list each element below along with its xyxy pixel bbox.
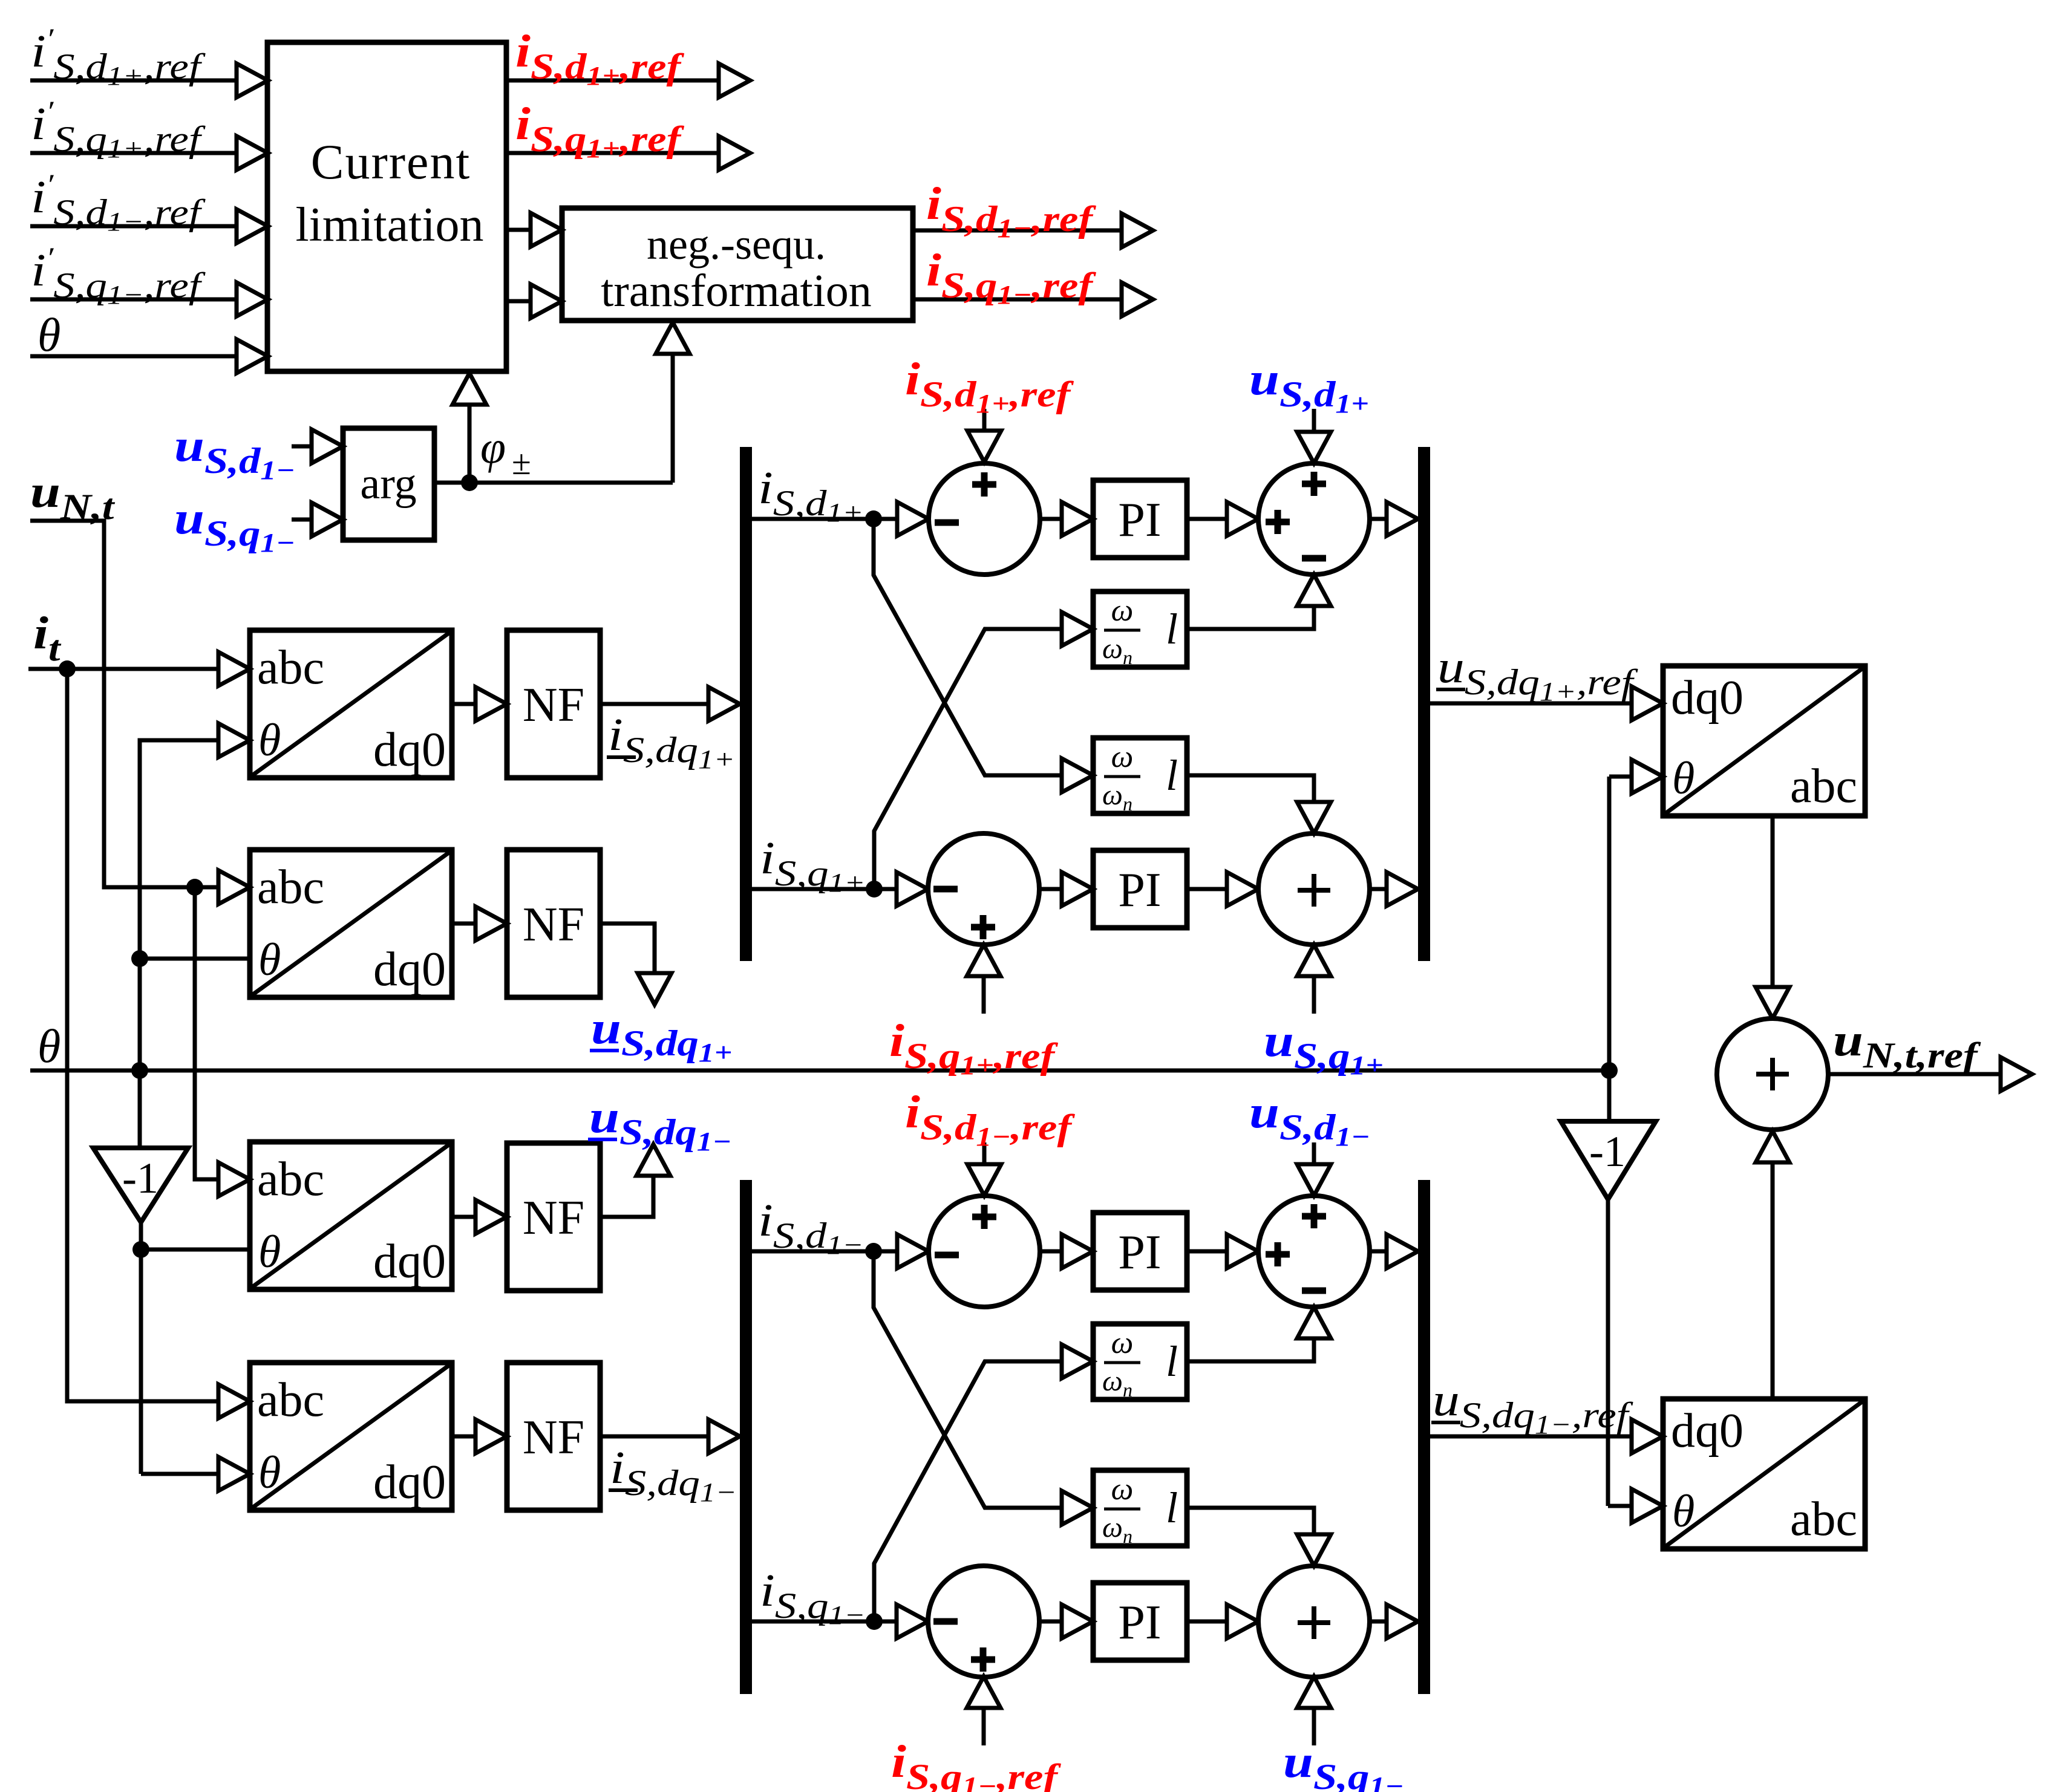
wire -1A to block3 theta (141, 1248, 250, 1252)
svg-text:neg.-sequ.: neg.-sequ. (647, 220, 826, 269)
svg-text:l: l (1166, 1484, 1178, 1532)
node phi+- junction (461, 474, 478, 491)
node -1A to block3 junction (132, 1241, 149, 1258)
wire wL upper to SB2 bottom (1187, 1339, 1314, 1361)
svg-text:-1: -1 (122, 1154, 158, 1202)
bus bar 3 (740, 1180, 752, 1694)
wire PI to SB2 (1187, 1250, 1227, 1254)
node theta to block2 junction (131, 950, 148, 967)
svg-text:NF: NF (523, 898, 584, 951)
wire u_N,t (30, 521, 218, 887)
node u_N,t branch junction (186, 879, 203, 896)
svg-text:θ: θ (1672, 753, 1694, 804)
wire output i_S,d1-,ref (red) (913, 229, 1122, 233)
svg-text:NF: NF (523, 679, 584, 732)
svg-text:dq0: dq0 (1671, 1404, 1743, 1458)
summer SA4 (q output) (1258, 833, 1370, 945)
block U2 neg.-sequ. transformation (562, 208, 913, 321)
wire i_S,q1-,ref into SB3 (967, 1676, 1001, 1708)
block T5 dq0->abc (1663, 666, 1865, 816)
bus bar 1 (740, 447, 752, 961)
block wL A lower (1093, 738, 1187, 813)
wire SA1 to PI (1040, 517, 1062, 521)
wire u_S,q1+ into SA4 (1297, 945, 1331, 976)
wire wL lower to SA4 top (1187, 775, 1314, 802)
wire output u_N,t,ref (1828, 1072, 2001, 1077)
wire bus to sum Bd (752, 1250, 897, 1254)
block PI Bd (1093, 1213, 1187, 1290)
svg-text:abc: abc (1790, 760, 1857, 813)
summer SA1 (d error) (929, 463, 1040, 575)
block NF2 NF (507, 850, 600, 997)
svg-text:NF: NF (523, 1191, 584, 1245)
block wL B lower (1093, 1470, 1187, 1546)
block wL B upper (1093, 1324, 1187, 1399)
block NF3 NF (507, 1143, 600, 1291)
block T1 abc->dq0 (250, 630, 452, 778)
wire Bd cross to lower wL (874, 1251, 1062, 1508)
svg-text:l: l (1166, 751, 1178, 800)
block NF4 NF (507, 1363, 600, 1510)
svg-text:l: l (1166, 1337, 1178, 1386)
wire NF4 to bus3 i_S,dq1- (600, 1435, 708, 1439)
block U1 Current limitation (267, 42, 506, 371)
svg-text:ω: ω (1111, 1472, 1134, 1507)
wire input i'_S,d1+,ref (30, 79, 237, 83)
svg-text:ω: ω (1111, 593, 1134, 628)
wire u_N,t branch to block3 (195, 887, 218, 1179)
svg-text:PI: PI (1118, 864, 1161, 917)
wire input i'_S,q1&#8722;,ref (30, 298, 237, 302)
wire u_S,q1- into SB4 (1297, 1676, 1331, 1708)
svg-text:Current: Current (311, 134, 471, 189)
wire u_S,q1- to arg (292, 518, 312, 522)
node Ad junction (865, 510, 882, 527)
node Aq junction (866, 881, 883, 898)
svg-text:l: l (1166, 605, 1178, 653)
svg-text:dq0: dq0 (373, 1235, 446, 1288)
wire bus4 to dq0->abc B (u_S,dq1-,ref) (1430, 1435, 1632, 1439)
wire wL lower to SB4 top (1187, 1508, 1314, 1534)
wire theta to block2 (140, 957, 250, 961)
wire NF2 to u_S,dq1+ arrow (600, 924, 655, 973)
wire bus to sum Bq (752, 1620, 897, 1624)
svg-text:abc: abc (257, 1153, 324, 1206)
svg-text:PI: PI (1118, 494, 1161, 547)
wire theta main line (30, 1069, 1609, 1073)
summer SA2 (d output) (1258, 463, 1370, 575)
svg-text:dq0: dq0 (1671, 671, 1743, 725)
wire PI to SA4 (1187, 887, 1227, 891)
wire bus to sum Ad (752, 517, 897, 521)
block wL A upper (1093, 591, 1187, 667)
svg-text:-1: -1 (1589, 1127, 1626, 1176)
svg-text:dq0: dq0 (373, 723, 446, 777)
block PI Bq (1093, 1583, 1187, 1660)
wire i_S,q1+,ref into SA3 (967, 945, 1001, 976)
svg-text:dq0: dq0 (373, 1456, 446, 1509)
node theta junction left (131, 1062, 148, 1079)
node theta junction right (1601, 1062, 1618, 1079)
wire PI to SB4 (1187, 1620, 1227, 1624)
wire u_S,d1- into SB2 (1312, 1142, 1316, 1164)
wire phi+- to U1 (468, 405, 472, 483)
block U3 arg (343, 428, 434, 540)
block T2 abc->dq0 (250, 850, 452, 997)
summer SB4 (q output) (1258, 1566, 1370, 1677)
wire SB4 to bus (1370, 1620, 1387, 1624)
wire NF3 to u_S,dq1- arrow (600, 1176, 653, 1217)
wire U1 to U2 upper (506, 228, 531, 232)
wire input i'_S,d1&#8722;,ref (30, 224, 237, 229)
svg-text:abc: abc (1790, 1493, 1857, 1546)
svg-text:θ: θ (258, 1227, 281, 1277)
summer SB1 (d error) (929, 1196, 1040, 1307)
wire Aq cross to upper wL (874, 629, 1062, 889)
wire bus to sum Aq (752, 887, 897, 891)
block T6 dq0->abc (1663, 1399, 1865, 1549)
svg-text:abc: abc (257, 1373, 324, 1427)
wire U1 to U2 lower (506, 299, 531, 304)
wire i_t drop to block4 (67, 669, 218, 1401)
svg-text:abc: abc (257, 641, 324, 694)
wire theta to T5 (1609, 775, 1632, 779)
svg-text:φ: φ (480, 422, 506, 473)
wire output i_S,q1-,ref (red) (913, 298, 1122, 302)
wire input i'_S,q1+,ref (30, 151, 237, 155)
wire Ad cross to lower wL (874, 519, 1062, 775)
wire u_S,d1- to arg (292, 445, 312, 449)
svg-text:PI: PI (1118, 1596, 1161, 1649)
svg-text:NF: NF (523, 1411, 584, 1464)
bus bar 2 (1418, 447, 1430, 961)
wire SA4 to bus (1370, 887, 1387, 891)
svg-text:dq0: dq0 (373, 943, 446, 996)
svg-text:θ: θ (258, 934, 281, 985)
wire T1 to NF1 (452, 702, 475, 706)
wire -1B output riser (1606, 1199, 1610, 1506)
svg-text:PI: PI (1118, 1226, 1161, 1279)
wire NF1 to bus1 i_S,dq1+ (600, 702, 708, 706)
summer S5 final (u_N,t,ref) (1717, 1018, 1828, 1130)
wire output i_S,q1+,ref (red) (506, 151, 719, 155)
block T4 abc->dq0 (250, 1363, 452, 1510)
wire input theta (30, 354, 237, 359)
wire PI to SA2 (1187, 517, 1227, 521)
wire T6 output up to S5 (1771, 1162, 1775, 1399)
wire T5 output down (1771, 816, 1775, 987)
wire -1B to T6 theta (1608, 1504, 1632, 1508)
wire Bq cross to upper wL (874, 1361, 1062, 1621)
gain -1 B triangle (1561, 1121, 1656, 1199)
svg-text:θ: θ (1672, 1486, 1694, 1537)
wire T3 to NF3 (452, 1215, 475, 1219)
wire theta riser right (1607, 777, 1612, 1070)
svg-text:θ: θ (38, 1020, 60, 1072)
wire theta riser to block1 (140, 740, 218, 1070)
wire -1A to block4 theta (141, 1472, 218, 1476)
svg-text:ω: ω (1111, 740, 1134, 774)
svg-text:limitation: limitation (295, 198, 483, 252)
node Bq junction (866, 1613, 883, 1630)
block PI Ad (1093, 480, 1187, 558)
wire i_S,d1-,ref into SB1 (982, 1142, 987, 1164)
bus bar 4 (1418, 1180, 1430, 1694)
wire SB2 to bus (1370, 1250, 1387, 1254)
wire -1 A output (139, 1222, 143, 1474)
svg-text:θ: θ (258, 1447, 281, 1498)
gain -1 A triangle (93, 1148, 188, 1222)
summer SB3 (q error) (928, 1566, 1039, 1677)
wire i_S,d1+,ref into SA1 (982, 409, 987, 431)
summer SB2 (d output) (1258, 1196, 1370, 1307)
svg-text:θ: θ (258, 715, 281, 766)
wire arg output phi+- (434, 481, 673, 485)
wire theta to -1 A (138, 1070, 142, 1148)
wire wL upper to SA2 bottom (1187, 607, 1314, 629)
wire bus2 to dq0->abc A (u_S,dq1+,ref) (1430, 702, 1632, 706)
summer SA3 (q error) (928, 833, 1039, 945)
svg-text:±: ± (512, 443, 531, 482)
wire T2 to NF2 (452, 922, 475, 926)
svg-text:ω: ω (1111, 1326, 1134, 1360)
block NF1 NF (507, 630, 600, 778)
svg-text:transformation: transformation (601, 266, 871, 316)
wire output i_S,d1+,ref (red) (506, 79, 719, 83)
svg-text:abc: abc (257, 861, 324, 914)
node Bd junction (865, 1243, 882, 1260)
wire SB3 to PI (1039, 1620, 1062, 1624)
wire u_S,d1+ into SA2 (1312, 409, 1316, 432)
wire SA2 to bus (1370, 517, 1387, 521)
wire T4 to NF4 (452, 1435, 475, 1439)
block T3 abc->dq0 (250, 1142, 452, 1289)
wire SB1 to PI (1040, 1250, 1062, 1254)
wire phi+- to U2 (671, 354, 675, 483)
wire theta to -1 B (1607, 1070, 1612, 1121)
node i_t junction (59, 660, 76, 677)
wire SA3 to PI (1039, 887, 1062, 891)
svg-text:θ: θ (38, 308, 60, 361)
block PI Aq (1093, 850, 1187, 928)
svg-text:arg: arg (360, 459, 416, 509)
wire i_t (28, 667, 218, 671)
